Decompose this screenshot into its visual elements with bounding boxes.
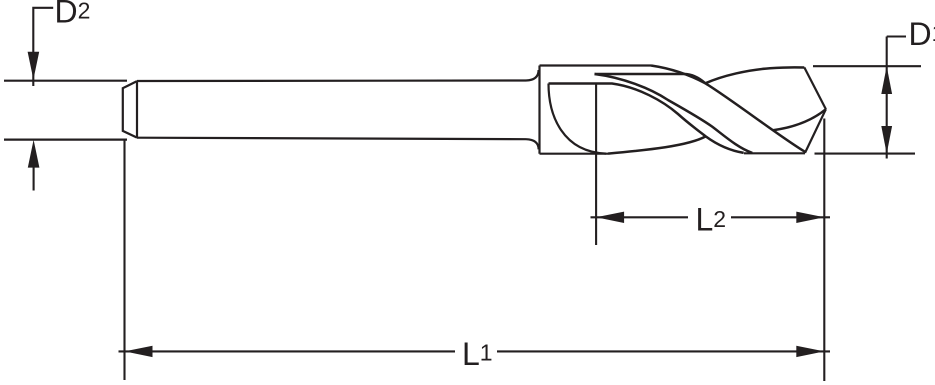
svg-text:L2: L2 (696, 201, 727, 237)
D2 lower arrow tail (33, 167, 35, 191)
svg-text:L1: L1 (462, 336, 493, 372)
svg-text:D2: D2 (55, 0, 91, 29)
svg-text:D1: D1 (909, 16, 935, 52)
L1 right arrowhead (796, 346, 824, 357)
L2 left extension line (595, 85, 597, 246)
chisel edge curve at point (773, 109, 826, 130)
flute runout arc (549, 84, 607, 154)
shank chamfer face edge (136, 81, 138, 138)
point lip edge (804, 67, 826, 109)
point flank edge (805, 109, 826, 153)
body top line (540, 64, 652, 66)
land margin top line A (595, 74, 706, 83)
main helix diagonal (651, 66, 805, 152)
shank-body top fillet (526, 70, 539, 81)
D1 top extension line (813, 65, 921, 67)
upper land band curve (595, 74, 753, 153)
shank bottom extension line (4, 139, 127, 141)
D2 up arrowhead (28, 140, 40, 168)
D1 down arrowhead (881, 126, 892, 154)
D1 dimension vertical line (886, 37, 888, 159)
D1 up arrowhead (881, 66, 892, 94)
L1 dimension line right part (497, 350, 830, 352)
D2 leader bracket (33, 8, 53, 86)
L2 dimension line left part (591, 216, 689, 218)
shank bottom line (137, 138, 526, 140)
L2 dimension line right part (731, 216, 830, 218)
shank chamfer left end (123, 81, 137, 138)
shank-body bottom fillet (526, 139, 539, 149)
L2 / L1 right extension line (823, 119, 825, 382)
L2 right arrowhead (796, 212, 824, 223)
D1 bottom extension line (815, 153, 916, 155)
flute line C with lower land band curve (549, 84, 744, 153)
body bottom line right segment (744, 152, 805, 154)
L1 left extension line (123, 141, 125, 381)
rising curve to point peak (705, 67, 804, 83)
L2 left arrowhead (596, 212, 624, 223)
body bottom line left segment (540, 153, 609, 155)
L1 dimension line left part (119, 350, 456, 352)
shank top extension line (4, 80, 127, 82)
body left face (538, 66, 540, 154)
D1 leader bracket (887, 35, 906, 37)
D2 down arrowhead (28, 52, 40, 80)
shank top line (137, 79, 526, 82)
flute valley curve (608, 136, 706, 153)
L1 left arrowhead (125, 346, 153, 357)
